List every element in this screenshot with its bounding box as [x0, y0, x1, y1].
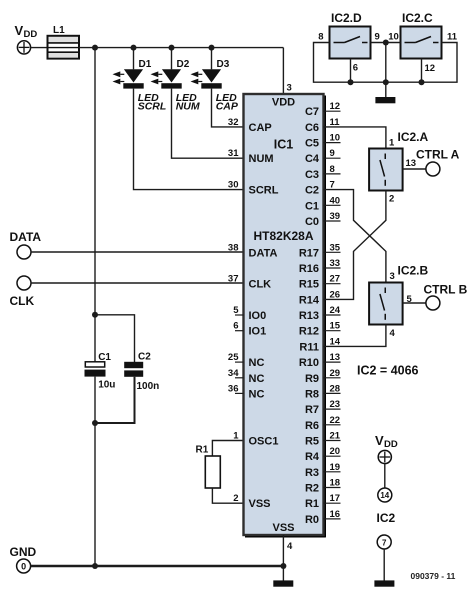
- svg-text:4: 4: [287, 541, 293, 552]
- terminal DATA: [10, 230, 42, 259]
- IC1 right pin 33 R16: [299, 258, 341, 275]
- svg-text:27: 27: [330, 274, 341, 285]
- svg-text:8: 8: [330, 164, 335, 175]
- svg-text:20: 20: [330, 446, 341, 457]
- wire CLK to IC1 pin 37: [31, 282, 244, 284]
- IC1 right pin 28 R8: [305, 383, 341, 400]
- svg-text:2: 2: [389, 194, 394, 205]
- LED D3: [191, 59, 239, 113]
- svg-text:C4: C4: [305, 153, 320, 165]
- svg-text:NC: NC: [249, 357, 265, 369]
- svg-text:DATA: DATA: [249, 247, 278, 259]
- svg-text:R17: R17: [299, 247, 319, 259]
- svg-text:5: 5: [407, 294, 413, 305]
- IC1 right pin 40 C1: [305, 195, 341, 212]
- IC1 left pin 34 NC: [228, 368, 265, 385]
- IC1 right pin 29 R9: [305, 368, 341, 385]
- capacitor C2: [124, 352, 159, 393]
- svg-text:C6: C6: [305, 122, 319, 134]
- svg-text:C2: C2: [305, 185, 319, 197]
- IC1 right pin 8 C3: [305, 164, 341, 181]
- svg-text:C1: C1: [98, 352, 111, 363]
- svg-text:R4: R4: [305, 451, 320, 463]
- IC2 pin 7 circle: [377, 535, 391, 549]
- LED D3 wire from rail: [211, 48, 213, 70]
- wire VDD to pin 14: [384, 464, 386, 488]
- LED D1 wire from rail: [133, 48, 135, 70]
- svg-text:35: 35: [330, 242, 341, 253]
- wire VDD rail down left side: [94, 48, 96, 363]
- IC2 pin 14 circle: [378, 488, 392, 502]
- svg-text:GND: GND: [10, 545, 37, 559]
- terminal CLK: [10, 276, 35, 308]
- svg-text:CLK: CLK: [249, 279, 272, 291]
- svg-text:7: 7: [382, 538, 387, 547]
- svg-text:DD: DD: [384, 439, 398, 450]
- svg-text:16: 16: [330, 509, 341, 520]
- svg-text:IC2: IC2: [377, 511, 396, 525]
- wire R1 to VSS pin 2: [212, 488, 243, 503]
- svg-text:R14: R14: [299, 294, 320, 306]
- svg-text:IC2.A: IC2.A: [398, 130, 429, 144]
- svg-text:8: 8: [318, 32, 323, 43]
- svg-text:OSC1: OSC1: [249, 436, 279, 448]
- svg-text:R9: R9: [305, 373, 319, 385]
- node junction C filter bottom: [92, 420, 98, 426]
- svg-text:17: 17: [330, 493, 341, 504]
- svg-text:10u: 10u: [98, 380, 115, 391]
- IC1 right pin 14 R11: [299, 336, 340, 353]
- capacitor C1 (electrolytic): [85, 352, 116, 391]
- svg-text:R3: R3: [305, 467, 319, 479]
- wire C6 pin 11 to IC2.A: [324, 127, 386, 149]
- IC1 right pin 21 R5: [305, 431, 341, 448]
- svg-text:NC: NC: [249, 388, 265, 400]
- terminal VDD (bottom right): [375, 433, 398, 464]
- op-amp U1 : IC1 HT82K28A body: [244, 94, 326, 537]
- IC1 left pin 6 IO1: [233, 321, 266, 338]
- IC1 right pin 24 R13: [299, 305, 341, 322]
- svg-text:R6: R6: [305, 420, 319, 432]
- svg-text:R16: R16: [299, 263, 319, 275]
- IC1 left pin 25 NC: [228, 352, 265, 369]
- svg-text:22: 22: [330, 415, 341, 426]
- analog switch IC2.D: [330, 11, 371, 59]
- svg-text:28: 28: [330, 383, 341, 394]
- svg-text:1: 1: [389, 138, 395, 149]
- svg-text:4: 4: [390, 328, 396, 339]
- IC1 right pin 35 R17: [299, 242, 341, 259]
- svg-text:21: 21: [330, 431, 341, 442]
- IC1 right pin 18 R2: [305, 478, 341, 495]
- svg-text:D2: D2: [177, 59, 190, 70]
- IC1 left pin 37 CLK: [228, 274, 271, 291]
- svg-text:24: 24: [330, 305, 341, 316]
- svg-text:39: 39: [330, 211, 341, 222]
- svg-text:R5: R5: [305, 436, 319, 448]
- wire GND rail: [31, 565, 284, 567]
- svg-text:13: 13: [330, 352, 341, 363]
- svg-text:HT82K28A: HT82K28A: [253, 229, 313, 243]
- svg-text:38: 38: [228, 242, 239, 253]
- wire DATA to IC1 pin 38: [31, 251, 244, 253]
- IC1 right pin 19 R3: [305, 462, 341, 479]
- node junction GND/left line: [92, 563, 98, 569]
- svg-text:C2: C2: [138, 352, 151, 363]
- IC1 right pin 22 R6: [305, 415, 341, 432]
- svg-text:13: 13: [406, 158, 417, 169]
- svg-text:40: 40: [330, 195, 341, 206]
- svg-text:19: 19: [330, 462, 341, 473]
- IC1 right pin 17 R1: [305, 493, 341, 510]
- IC1 right pin 12 C7: [305, 101, 341, 118]
- node junction above D3: [209, 45, 215, 51]
- analog switch IC2.A: [369, 130, 428, 191]
- IC1 left pin 31 NUM: [228, 148, 274, 165]
- svg-text:0: 0: [21, 562, 26, 572]
- svg-text:VDD: VDD: [272, 97, 295, 109]
- svg-text:CTRL A: CTRL A: [416, 148, 460, 162]
- node junction between pins 9 and 10: [383, 40, 389, 46]
- svg-text:IC2.B: IC2.B: [398, 264, 429, 278]
- svg-text:R0: R0: [305, 514, 319, 526]
- svg-text:32: 32: [228, 117, 239, 128]
- svg-text:IO1: IO1: [249, 326, 267, 338]
- IC1 right pin 10 C5: [305, 133, 341, 150]
- wire branch to C2: [95, 315, 135, 362]
- svg-text:31: 31: [228, 148, 239, 159]
- ground symbol for unused switches: [375, 97, 395, 103]
- svg-text:R1: R1: [305, 498, 319, 510]
- svg-text:6: 6: [233, 321, 238, 332]
- IC1 left pin 2 VSS: [233, 493, 270, 510]
- svg-text:L1: L1: [53, 25, 65, 36]
- svg-text:C5: C5: [305, 138, 319, 150]
- wire IC2.A pin 13 to CTRL A: [403, 168, 426, 170]
- wire D1 cathode to IC1: [134, 89, 244, 190]
- svg-text:C7: C7: [305, 106, 319, 118]
- svg-text:IC2.D: IC2.D: [331, 11, 362, 25]
- wire C2 bottom to junction: [95, 377, 135, 423]
- IC1 right pin 16 R0: [305, 509, 341, 526]
- svg-text:R13: R13: [299, 310, 319, 322]
- svg-text:D1: D1: [139, 59, 152, 70]
- analog switch IC2.C: [401, 11, 442, 59]
- svg-text:10: 10: [388, 32, 399, 43]
- svg-text:37: 37: [228, 274, 239, 285]
- wire OSC1 to R1: [212, 441, 243, 457]
- svg-text:R8: R8: [305, 388, 319, 400]
- IC2.C control pin 12: [421, 59, 423, 83]
- wire IC2.A pin 2 crossing to R14 pin 26: [324, 191, 386, 300]
- analog switch IC2.B: [369, 264, 428, 325]
- svg-text:36: 36: [228, 383, 239, 394]
- svg-text:33: 33: [330, 258, 341, 269]
- svg-text:10: 10: [330, 133, 341, 144]
- svg-text:15: 15: [330, 321, 341, 332]
- wire junction down to ground: [385, 43, 387, 98]
- wire IC2.B pin 4 to R11 pin 14: [324, 325, 386, 347]
- svg-text:12: 12: [330, 101, 341, 112]
- svg-text:V: V: [375, 433, 384, 448]
- terminal GND: [10, 545, 37, 573]
- resistor R1: [196, 445, 221, 489]
- svg-text:11: 11: [447, 32, 458, 43]
- svg-text:9: 9: [375, 32, 380, 43]
- svg-text:29: 29: [330, 368, 341, 379]
- svg-text:090379 - 11: 090379 - 11: [411, 571, 456, 581]
- wire C2 pin 7 crossing to IC2.B pin 3: [324, 190, 386, 283]
- wire IC2.D pin 9 to IC2.C pin 10: [371, 42, 401, 44]
- IC1 right pin 13 R10: [299, 352, 341, 369]
- wire IC2.B pin 5 to CTRL B: [403, 302, 426, 304]
- svg-text:12: 12: [425, 63, 436, 74]
- svg-text:NUM: NUM: [176, 101, 200, 113]
- svg-text:23: 23: [330, 399, 341, 410]
- svg-text:R11: R11: [299, 341, 319, 353]
- svg-text:NC: NC: [249, 373, 265, 385]
- LED D2: [151, 59, 200, 113]
- IC1 left pin 30 SCRL: [228, 180, 279, 197]
- IC2.D control pin 6: [350, 59, 352, 83]
- LED D1: [113, 59, 167, 113]
- node junction above D1: [131, 45, 137, 51]
- inductor L1 (ferrite bead): [48, 25, 80, 59]
- svg-text:R7: R7: [305, 404, 319, 416]
- svg-text:3: 3: [390, 271, 395, 282]
- svg-text:3: 3: [287, 83, 292, 94]
- IC1 right pin 11 C6: [305, 117, 340, 134]
- svg-text:CTRL B: CTRL B: [424, 283, 468, 297]
- IC1 right pin 7 C2: [305, 180, 335, 197]
- svg-text:34: 34: [228, 368, 239, 379]
- svg-text:R15: R15: [299, 279, 319, 291]
- svg-text:IC2 = 4066: IC2 = 4066: [357, 364, 419, 378]
- svg-text:100n: 100n: [137, 381, 160, 392]
- svg-text:VSS: VSS: [272, 522, 294, 534]
- IC1 right pin 15 R12: [299, 321, 341, 338]
- IC1 right pin 27 R15: [299, 274, 341, 291]
- node junction above D2: [169, 45, 175, 51]
- svg-text:SCRL: SCRL: [138, 101, 167, 113]
- wire D3 cathode to IC1: [212, 89, 244, 127]
- wire VDD rail down to IC1 pin 3: [282, 48, 284, 96]
- svg-text:25: 25: [228, 352, 239, 363]
- wire D2 cathode to IC1: [172, 89, 244, 159]
- terminal VDD (top left): [15, 23, 38, 54]
- svg-text:C1: C1: [305, 200, 319, 212]
- svg-text:CLK: CLK: [10, 294, 35, 308]
- svg-text:9: 9: [330, 148, 335, 159]
- wire VDD to L1: [31, 47, 48, 49]
- IC1 left pin 38 DATA: [228, 242, 278, 259]
- svg-text:30: 30: [228, 180, 239, 191]
- svg-text:IC2.C: IC2.C: [402, 11, 433, 25]
- svg-text:18: 18: [330, 478, 341, 489]
- svg-text:IO0: IO0: [249, 310, 267, 322]
- svg-text:C0: C0: [305, 216, 319, 228]
- LED D2 wire from rail: [171, 48, 173, 70]
- svg-text:2: 2: [233, 493, 238, 504]
- wire IC1 VSS pin 4 to ground: [282, 535, 284, 581]
- svg-text:R2: R2: [305, 483, 319, 495]
- node junctions on ground rail: [348, 79, 354, 85]
- ground symbol under IC1: [273, 580, 293, 586]
- wire IC2.D pin 8 loop to ground rail: [314, 43, 458, 83]
- IC1 right pin 39 C0: [305, 211, 341, 228]
- svg-text:SCRL: SCRL: [249, 185, 279, 197]
- svg-text:14: 14: [380, 491, 389, 500]
- svg-text:CAP: CAP: [216, 101, 239, 113]
- svg-text:NUM: NUM: [249, 153, 274, 165]
- svg-text:1: 1: [233, 431, 239, 442]
- svg-text:DD: DD: [24, 29, 38, 40]
- svg-text:VSS: VSS: [249, 498, 271, 510]
- IC1 right pin 9 C4: [305, 148, 341, 165]
- IC1 right pin 20 R4: [305, 446, 341, 463]
- wire pin 7 to ground: [383, 549, 385, 581]
- svg-text:D3: D3: [217, 59, 230, 70]
- wire L1 to VDD rail: [79, 47, 283, 49]
- ground symbol bottom right: [374, 580, 394, 586]
- IC1 left pin 1 OSC1: [233, 431, 278, 448]
- terminal CTRL A: [416, 148, 460, 177]
- IC1 left pin 32 CAP: [228, 117, 272, 134]
- svg-text:5: 5: [233, 305, 239, 316]
- svg-text:DATA: DATA: [10, 230, 42, 244]
- IC1 right pin 23 R7: [305, 399, 341, 416]
- svg-text:R10: R10: [299, 357, 319, 369]
- svg-text:R1: R1: [196, 445, 209, 456]
- svg-text:CAP: CAP: [249, 122, 272, 134]
- terminal CTRL B: [424, 283, 468, 311]
- node junction C filter top: [92, 312, 98, 318]
- svg-text:R12: R12: [299, 326, 319, 338]
- IC1 right pin 26 R14: [299, 289, 340, 306]
- svg-text:V: V: [15, 23, 24, 38]
- node junction GND/VSS: [280, 563, 286, 569]
- svg-text:IC1: IC1: [274, 138, 294, 152]
- IC1 left pin 36 NC: [228, 383, 265, 400]
- node junction at L1/filter: [92, 45, 98, 51]
- svg-text:6: 6: [353, 63, 358, 74]
- svg-text:C3: C3: [305, 169, 319, 181]
- IC1 left pin 5 IO0: [233, 305, 266, 322]
